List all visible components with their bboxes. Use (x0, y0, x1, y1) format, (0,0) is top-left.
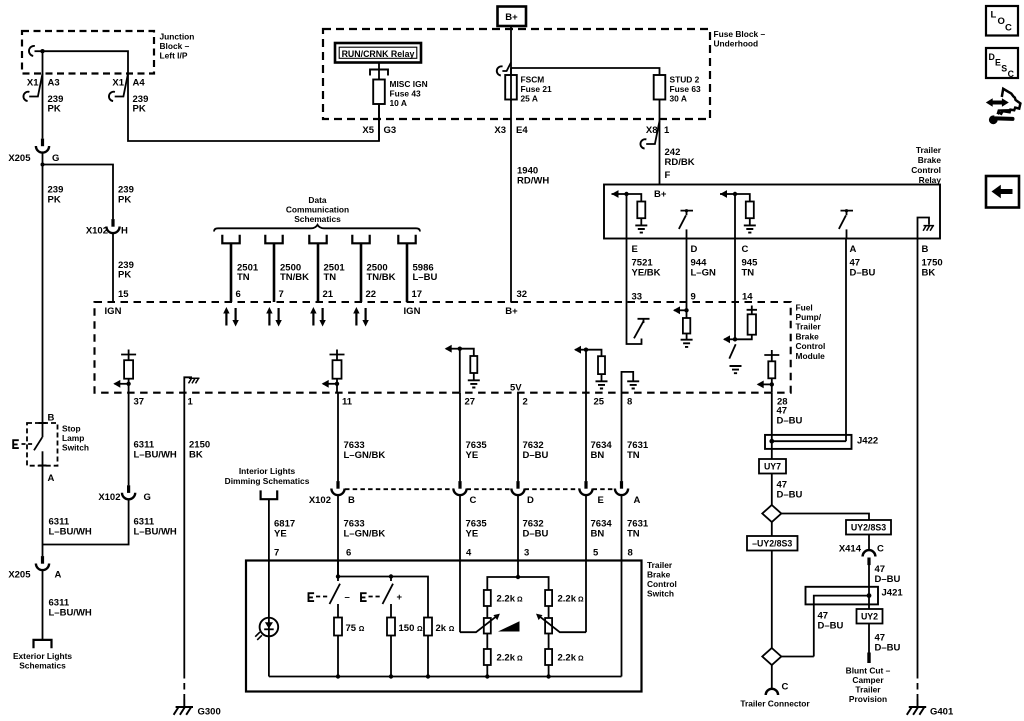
icon diagnostic (double arrow with wrench) (986, 89, 1021, 124)
svg-text:Switch: Switch (62, 443, 89, 453)
connector UY7 (759, 459, 786, 474)
bus wire bottom (269, 676, 622, 678)
module internal coil above pin 27 (445, 345, 480, 393)
brace (214, 225, 420, 232)
wire B+ to FSCM fuse (510, 26, 512, 75)
svg-text:6: 6 (236, 289, 241, 300)
svg-text:IGN: IGN (105, 306, 122, 317)
svg-text:UY2: UY2 (861, 612, 878, 622)
wire relay A down to J422 (845, 239, 847, 442)
svg-text:C: C (877, 544, 884, 555)
svg-text:STUD 2: STUD 2 (670, 75, 700, 85)
connector hook at FSCM branch (497, 63, 511, 76)
connector X205 G (36, 139, 49, 153)
node junction dot (40, 49, 44, 53)
svg-text:A: A (634, 495, 641, 506)
svg-text:B: B (48, 413, 55, 424)
wire X102 A to switch pin 8 (621, 495, 623, 676)
wire MISC IGN fuse output to X5 G3 (378, 104, 380, 141)
svg-text:+: + (397, 592, 403, 603)
wire junction block internal bus (43, 51, 129, 73)
module internal chassis ground above pin 1 (184, 377, 199, 392)
splice diamond 1 (762, 505, 781, 522)
module internal coil above pin 9 (673, 302, 693, 347)
option box UY2/8S3 (846, 520, 891, 535)
svg-text:1: 1 (188, 397, 194, 408)
connector X414 C (863, 550, 876, 565)
arrows serial data pin 7 (266, 307, 282, 327)
svg-text:Communication: Communication (286, 204, 349, 214)
relay pin B internal chassis ground (918, 218, 935, 239)
svg-text:6: 6 (346, 548, 351, 559)
resistor 2.2k upper left (484, 590, 491, 606)
stop lamp switch actuator E (12, 439, 18, 449)
terminal data wire 3 (309, 235, 326, 302)
svg-text:Fuel: Fuel (796, 302, 813, 312)
svg-text:21: 21 (323, 289, 334, 300)
svg-text:Underhood: Underhood (714, 39, 759, 49)
splice diamond 2 (762, 648, 781, 665)
wire to 75 ohm (337, 604, 339, 618)
connector on 242 wire below X8 (640, 121, 659, 149)
svg-text:A: A (850, 244, 857, 255)
wiper arrow right (from pin 5) (538, 615, 586, 632)
svg-text:Fuse 21: Fuse 21 (521, 84, 553, 94)
wire module pin 11 to X102 B (337, 393, 339, 482)
switch box outline (246, 561, 642, 692)
terminal data wire 2 (265, 235, 282, 302)
junction block dashed outline (22, 31, 154, 74)
svg-text:22: 22 (366, 289, 377, 300)
wire branch to X102 H (43, 165, 114, 220)
wire pin 3 to divider top (516, 575, 520, 579)
connector X205 A (36, 556, 49, 570)
potentiometer left (486, 606, 488, 618)
svg-text:8: 8 (628, 548, 633, 559)
svg-text:PK: PK (48, 195, 61, 206)
wire top feed to plus switch and 2k (338, 577, 428, 618)
connector X102 D (511, 481, 524, 495)
svg-text:7: 7 (279, 289, 284, 300)
fuse STUD 2 Fuse 63 30A (654, 75, 666, 100)
svg-text:D–BU: D–BU (818, 621, 844, 632)
svg-text:Blunt Cut –: Blunt Cut – (846, 666, 891, 676)
arrows serial data pin 21 (310, 307, 326, 327)
wire X102 E to switch pin 5 (585, 495, 587, 632)
terminal data wire 1 (222, 235, 239, 302)
svg-text:17: 17 (412, 289, 423, 300)
svg-text:25 A: 25 A (521, 94, 538, 104)
wire module pin 8 to X102 A (621, 393, 623, 482)
svg-text:30 A: 30 A (670, 94, 687, 104)
resistor 75 ohm (334, 618, 342, 636)
svg-text:Pump/: Pump/ (796, 312, 822, 322)
svg-text:Trailer: Trailer (647, 560, 673, 570)
svg-text:TN: TN (627, 450, 640, 461)
node branch dot (41, 163, 45, 167)
svg-text:UY7: UY7 (764, 462, 781, 472)
svg-text:RUN/CRNK Relay: RUN/CRNK Relay (342, 49, 415, 59)
svg-text:Brake: Brake (647, 570, 671, 580)
svg-text:J421: J421 (882, 588, 904, 599)
wire UY7 to splice diamond (771, 474, 773, 506)
svg-text:Trailer: Trailer (796, 322, 822, 332)
svg-text:YE: YE (274, 529, 287, 540)
dashed harness line between connectors (345, 488, 615, 490)
splice pack J422 (765, 435, 852, 449)
wire module pin 27 to X102 C (459, 393, 461, 482)
svg-text:D–BU: D–BU (777, 416, 803, 427)
svg-text:Provision: Provision (849, 694, 887, 704)
svg-text:Switch: Switch (647, 589, 674, 599)
svg-text:14: 14 (742, 292, 753, 303)
wire UY2 to blunt cut (868, 624, 870, 653)
svg-text:Stop: Stop (62, 424, 81, 434)
svg-text:5: 5 (593, 548, 599, 559)
connector trailer C (766, 689, 778, 695)
relay coil C: arrow, dot, coil, ground (720, 190, 756, 232)
svg-text:F: F (665, 170, 671, 181)
svg-text:X102: X102 (309, 495, 331, 506)
wire relay pin C (734, 194, 736, 239)
wire relay pin E (626, 194, 628, 239)
svg-text:G300: G300 (198, 707, 221, 718)
svg-text:TN: TN (627, 529, 640, 540)
potentiometer right (548, 606, 550, 618)
svg-text:YE/BK: YE/BK (632, 268, 661, 279)
svg-text:C: C (742, 244, 749, 255)
relay box outline (604, 185, 940, 239)
svg-text:Control: Control (796, 341, 826, 351)
svg-text:Brake: Brake (918, 155, 942, 165)
svg-text:D–BU: D–BU (523, 529, 549, 540)
svg-text:Junction: Junction (160, 32, 195, 42)
svg-text:A: A (48, 473, 55, 484)
fuse FSCM Fuse 21 25A (510, 68, 512, 101)
connector X102 B (331, 481, 344, 495)
node plus switch junction (389, 574, 393, 578)
svg-text:TN/BK: TN/BK (367, 272, 396, 283)
resistor 2.2k upper right (545, 590, 552, 606)
svg-text:X414: X414 (839, 544, 862, 555)
svg-text:8: 8 (627, 397, 632, 408)
module internal coil above pin 37 (113, 350, 136, 393)
svg-text:Control: Control (647, 579, 677, 589)
fuse block dashed outline (323, 29, 710, 119)
splice pack J421 (806, 587, 879, 657)
svg-text:7: 7 (274, 548, 279, 559)
svg-text:L: L (991, 10, 997, 21)
svg-text:D–BU: D–BU (875, 574, 901, 585)
svg-text:32: 32 (517, 289, 528, 300)
svg-text:IGN: IGN (404, 306, 421, 317)
svg-text:4: 4 (466, 548, 472, 559)
wire X414 to J421 (868, 565, 870, 609)
svg-text:33: 33 (632, 292, 643, 303)
svg-text:15: 15 (118, 289, 129, 300)
module internal switch above pin 33 (627, 302, 650, 344)
node pin 6 junction (336, 574, 340, 578)
svg-text:D: D (989, 52, 995, 62)
svg-text:TN: TN (237, 272, 250, 283)
wire relay C to module pin 14 (734, 239, 736, 303)
svg-text:L–BU/WH: L–BU/WH (49, 527, 92, 538)
wire to 150 ohm (390, 604, 392, 618)
stop lamp switch lower terminal (42, 451, 44, 556)
svg-text:A4: A4 (133, 78, 146, 89)
svg-text:RD/WH: RD/WH (517, 176, 549, 187)
svg-text:5V: 5V (510, 383, 522, 394)
gain ramp triangle (498, 621, 520, 631)
resistor 150 ohm (387, 618, 395, 636)
svg-text:RD/BK: RD/BK (665, 157, 695, 168)
wire below X205 G down to stop lamp switch (42, 153, 44, 437)
svg-text:L–GN/BK: L–GN/BK (344, 450, 386, 461)
svg-text:FSCM: FSCM (521, 75, 545, 85)
connector X1 A4 (109, 74, 128, 102)
svg-text:BK: BK (189, 450, 203, 461)
svg-text:O: O (998, 16, 1005, 27)
icon back arrow button (986, 176, 1019, 208)
svg-text:X205: X205 (8, 570, 31, 581)
svg-text:D–BU: D–BU (875, 643, 901, 654)
connector X102 E (579, 481, 592, 495)
svg-text:TN: TN (324, 272, 337, 283)
svg-text:X3: X3 (494, 125, 506, 136)
svg-text:G3: G3 (384, 125, 397, 136)
module dashed outline (95, 302, 791, 393)
svg-text:PK: PK (118, 270, 131, 281)
svg-text:BK: BK (922, 268, 936, 279)
svg-text:Module: Module (796, 351, 826, 361)
svg-text:Trailer: Trailer (916, 145, 942, 155)
svg-text:Relay: Relay (919, 175, 942, 185)
svg-text:X102: X102 (98, 492, 120, 503)
svg-text:L–BU/WH: L–BU/WH (134, 450, 177, 461)
svg-text:25: 25 (594, 397, 605, 408)
svg-text:PK: PK (133, 104, 146, 115)
wire X102 B to switch pin 6 (337, 495, 339, 576)
wire FSCM to module pin 32 (1940 RD/WH) (510, 100, 512, 303)
module internal coil and switch above pin 14 (723, 302, 757, 373)
svg-text:C: C (782, 682, 789, 693)
svg-text:G: G (52, 153, 59, 164)
stop lamp switch dashed box (27, 423, 58, 466)
module internal coil above pin 25 (574, 346, 608, 393)
svg-text:10 A: 10 A (390, 98, 407, 108)
svg-text:2: 2 (523, 397, 528, 408)
connector X102 C (453, 481, 466, 495)
wire relay D to module pin 9 (686, 239, 688, 303)
wire to switch pin 7 (268, 499, 270, 560)
connector UY2 (857, 609, 883, 624)
svg-text:B: B (348, 495, 355, 506)
svg-text:A: A (55, 570, 62, 581)
svg-text:E: E (995, 58, 1001, 68)
wire J421 leg joins diamond 2 (781, 656, 814, 658)
blunt cut end (867, 653, 870, 664)
wire X102 C to switch pin 4 (459, 495, 461, 632)
terminal hook inside junction block (29, 46, 43, 56)
switch plus (E-- blade) (360, 584, 402, 604)
svg-text:D: D (527, 495, 534, 506)
resistor 2.2k lower left (486, 634, 488, 650)
svg-text:3: 3 (524, 548, 529, 559)
svg-text:X8: X8 (646, 125, 658, 136)
wire relay B down to G401 (917, 239, 919, 673)
svg-text:X1: X1 (27, 78, 39, 89)
svg-text:37: 37 (134, 397, 145, 408)
svg-text:YE: YE (466, 529, 479, 540)
wire A3 drop (42, 51, 44, 138)
svg-text:L–BU/WH: L–BU/WH (49, 608, 92, 619)
svg-text:TN: TN (742, 268, 755, 279)
svg-text:Brake: Brake (796, 331, 820, 341)
node bus dots (336, 674, 340, 678)
relay switch D (679, 209, 693, 238)
svg-text:–: – (345, 592, 350, 603)
svg-text:MISC IGN: MISC IGN (390, 79, 428, 89)
connector X102 G (122, 485, 135, 499)
wire A4 down and right to MISC IGN fuse (128, 74, 379, 142)
svg-text:X205: X205 (8, 153, 31, 164)
svg-text:Data: Data (308, 195, 326, 205)
ground G401 (907, 700, 926, 715)
svg-text:E: E (632, 244, 638, 255)
svg-text:X102: X102 (86, 226, 108, 237)
svg-text:YE: YE (466, 450, 479, 461)
terminal exterior lights (34, 640, 52, 648)
icon DESC button (986, 48, 1018, 79)
svg-text:L–BU/WH: L–BU/WH (134, 527, 177, 538)
terminal tick B (39, 422, 47, 424)
terminal tick A (39, 465, 47, 467)
svg-text:BN: BN (591, 529, 605, 540)
svg-text:B+: B+ (505, 306, 518, 317)
wire module pin 2 to X102 D (517, 393, 519, 482)
arrows serial data pin 6 (223, 307, 239, 327)
svg-text:Fuse 43: Fuse 43 (390, 89, 422, 99)
svg-text:Left I/P: Left I/P (160, 51, 188, 61)
resistor 2k ohm (424, 618, 432, 636)
svg-text:S: S (1001, 63, 1007, 73)
connector X102 A (615, 481, 628, 495)
relay switch A (839, 209, 853, 238)
wire relay E to module pin 33 (626, 239, 628, 303)
arrows serial data pin 22 (353, 307, 369, 327)
svg-text:BN: BN (591, 450, 605, 461)
svg-text:Control: Control (911, 165, 941, 175)
svg-text:X1: X1 (112, 78, 124, 89)
svg-text:PK: PK (118, 195, 131, 206)
svg-text:27: 27 (465, 397, 476, 408)
wire module pin 25 to X102 E (585, 393, 587, 482)
wiper arrow left (from pin 4) (460, 615, 498, 632)
svg-text:E: E (598, 495, 604, 506)
svg-text:C: C (1008, 69, 1015, 79)
wire X102 G down and left to X205 A (43, 500, 129, 545)
svg-text:D–BU: D–BU (523, 450, 549, 461)
svg-text:L–GN: L–GN (691, 268, 716, 279)
wire -UY2/8S3 to diamond 2 (771, 522, 773, 648)
svg-text:B+: B+ (505, 12, 518, 23)
switch minus (E-- blade) (308, 584, 350, 604)
relay coil E: arrow, dot, coil, ground (612, 190, 648, 232)
svg-text:B+: B+ (654, 189, 667, 200)
svg-text:L–BU: L–BU (413, 272, 438, 283)
ground G300 (174, 700, 193, 715)
terminal data wire 4 (352, 235, 369, 302)
wire X102 D to switch pin 3 (517, 495, 519, 577)
wire pin 6 to switch junction (337, 561, 339, 582)
svg-text:TN/BK: TN/BK (280, 272, 309, 283)
svg-text:Lamp: Lamp (62, 433, 84, 443)
stop lamp switch blade (34, 437, 42, 450)
svg-text:H: H (121, 226, 128, 237)
option box -UY2/8S3 (747, 536, 798, 551)
wire module pin 37 to X102 G (128, 393, 130, 486)
svg-text:Schematics: Schematics (294, 214, 341, 224)
svg-text:9: 9 (691, 292, 696, 303)
fuse MISC IGN Fuse 43 10A (373, 80, 385, 105)
wire X205 A to exterior lights (42, 570, 44, 640)
wire to X414 (868, 535, 870, 550)
svg-text:PK: PK (48, 104, 61, 115)
svg-text:Fuse 63: Fuse 63 (670, 84, 702, 94)
module internal ground above pin 8 (622, 372, 640, 393)
svg-text:Exterior Lights: Exterior Lights (13, 651, 72, 661)
node B+ supply box (498, 7, 527, 27)
svg-text:Schematics: Schematics (19, 661, 66, 671)
svg-text:11: 11 (342, 397, 353, 408)
svg-text:C: C (1005, 23, 1012, 34)
svg-text:J422: J422 (857, 436, 878, 447)
svg-text:Interior Lights: Interior Lights (239, 466, 296, 476)
svg-text:UY2/8S3: UY2/8S3 (851, 523, 886, 533)
svg-text:D: D (691, 244, 698, 255)
relay RUN/CRNK Relay (335, 43, 421, 63)
wire branch to STUD 2 fuse (511, 68, 660, 75)
wire diamond to UY2/8S3 branch (781, 514, 869, 521)
module internal coil above pin 28 (757, 350, 780, 393)
svg-text:E4: E4 (516, 125, 528, 136)
svg-text:X5: X5 (362, 125, 374, 136)
svg-text:D–BU: D–BU (850, 268, 876, 279)
svg-text:Dimming Schematics: Dimming Schematics (225, 476, 310, 486)
wire module pin 1 to G300 (183, 393, 185, 672)
svg-text:Fuse Block –: Fuse Block – (714, 29, 766, 39)
icon LOC button (986, 6, 1018, 36)
svg-text:A3: A3 (48, 78, 60, 89)
svg-text:Trailer Connector: Trailer Connector (740, 699, 810, 709)
terminal data wire 5 (398, 235, 415, 302)
wire 242 RD/BK to relay (659, 121, 661, 185)
wire pin 7 through LED to bus (268, 561, 270, 677)
svg-text:G: G (144, 492, 151, 503)
wire module pin 28 to J422 (771, 393, 773, 459)
terminal interior lights (261, 490, 278, 499)
svg-text:Block –: Block – (160, 41, 190, 51)
module internal coil above pin 11 (322, 350, 345, 393)
resistor 2.2k lower right (548, 634, 550, 650)
svg-text:Trailer: Trailer (855, 685, 881, 695)
svg-text:B: B (922, 244, 929, 255)
svg-text:L–GN/BK: L–GN/BK (344, 529, 386, 540)
connector X102 H (106, 219, 119, 233)
svg-text:G401: G401 (930, 707, 954, 718)
svg-text:1: 1 (664, 125, 670, 136)
svg-text:Camper: Camper (852, 675, 884, 685)
